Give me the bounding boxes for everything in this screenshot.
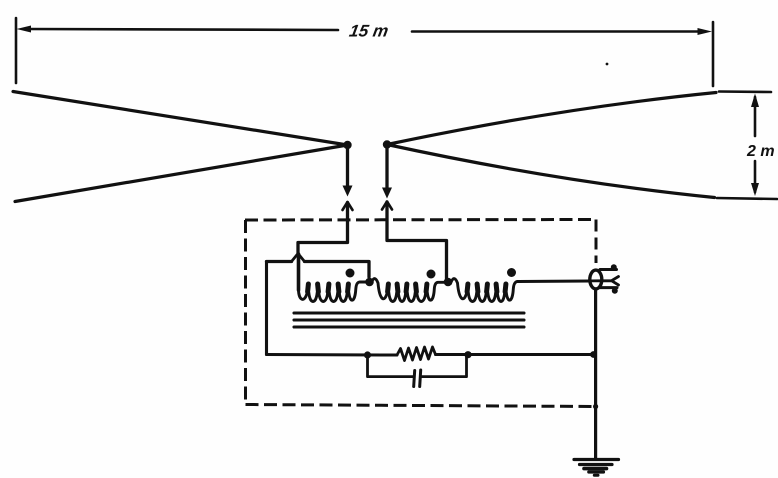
ground symbol line 4 bbox=[589, 470, 604, 473]
wire: coil 1 left lead bbox=[297, 254, 301, 290]
dimension 15m: right arrowhead bbox=[698, 28, 713, 35]
caret joint at coil 1 left lead bbox=[292, 254, 305, 262]
coax connector shell circle bbox=[590, 270, 602, 289]
coax connector bottom prong bbox=[600, 286, 617, 289]
wire: bottom horizontal right of resistor bbox=[436, 353, 593, 356]
left downlead arrowhead bbox=[343, 186, 353, 197]
svg-text:2 m: 2 m bbox=[746, 143, 775, 160]
transformer core line 3 bbox=[294, 325, 524, 328]
node: branch left dot bbox=[364, 351, 371, 358]
dimension 15m: right end tick bbox=[712, 22, 715, 86]
inductor L1 winding bbox=[299, 282, 368, 302]
dimension 2m: vertical line lower bbox=[754, 161, 757, 192]
antenna left fan bottom wire bbox=[15, 145, 348, 202]
dashed enclosure left edge bbox=[244, 220, 247, 404]
dimension 15m: left arrowhead bbox=[17, 26, 32, 33]
transformer core line 2 bbox=[294, 318, 524, 321]
L3 polarity dot bbox=[507, 268, 516, 277]
right downlead arrowhead bbox=[382, 188, 392, 199]
transformer core line 1 bbox=[294, 311, 524, 314]
dashed enclosure top edge bbox=[245, 218, 596, 222]
wire: top horizontal from rail to coil junction drop bbox=[267, 262, 370, 278]
node: bottom wire meets rail bbox=[590, 351, 597, 358]
ink speck bbox=[606, 63, 609, 66]
dimension 2m: bottom arrowhead bbox=[751, 183, 759, 196]
wire: left downlead upper bbox=[346, 145, 349, 188]
dimension 15m: left line segment bbox=[24, 29, 338, 30]
node: junction L2/L3 bbox=[444, 278, 453, 287]
left downlead chevron bbox=[343, 202, 353, 210]
wire: L3 to coax connector bbox=[519, 280, 590, 284]
node: junction L1/L2 bbox=[365, 278, 374, 287]
dashed enclosure right edge upper segment bbox=[595, 220, 598, 264]
wire: right rail to ground bbox=[594, 289, 597, 458]
node: right feed dot bbox=[383, 140, 391, 148]
wire: left downlead lower + jog to coil bbox=[298, 203, 348, 254]
ground symbol line 2 bbox=[580, 463, 613, 466]
L1 polarity dot bbox=[346, 269, 355, 278]
antenna left fan top wire bbox=[13, 92, 348, 146]
wire: right downlead lower + jog to coil junction bbox=[387, 202, 447, 280]
dimension 2m: top arrowhead bbox=[751, 94, 759, 108]
L2 polarity dot bbox=[427, 270, 436, 279]
node: left feed dot bbox=[343, 141, 351, 149]
resistor R zigzag bbox=[397, 347, 436, 361]
inductor L3 winding bbox=[451, 279, 521, 302]
dimension 2m: vertical line upper bbox=[754, 97, 757, 136]
dimension 2m: bottom tick bbox=[717, 198, 777, 199]
wire: capacitor branch bbox=[368, 355, 467, 377]
wire: right downlead upper bbox=[385, 145, 388, 191]
dimension 15m: left end tick bbox=[15, 18, 18, 83]
antenna right fan top wire bbox=[387, 93, 716, 145]
coax connector middle prong with chevron bbox=[589, 277, 619, 286]
node: dashed edge meets rail bbox=[593, 404, 598, 409]
ground symbol line 1 bbox=[574, 458, 619, 461]
wire: bottom horizontal with resistor bbox=[267, 353, 398, 357]
antenna right fan bottom wire bbox=[387, 145, 715, 198]
ground symbol line 3 bbox=[584, 467, 607, 471]
capacitor C right plate bbox=[420, 370, 421, 387]
node: branch right dot bbox=[464, 351, 471, 358]
dimension 2m: top tick bbox=[719, 90, 771, 93]
right downlead chevron bbox=[382, 202, 392, 210]
capacitor C left plate bbox=[414, 371, 415, 387]
dashed enclosure bottom edge bbox=[246, 405, 595, 407]
wire: left shunt rail (vertical) bbox=[265, 262, 268, 355]
dimension 15m: right line segment bbox=[412, 30, 704, 33]
inductor L2 winding bbox=[371, 279, 445, 302]
coax connector top prong bbox=[600, 268, 617, 271]
svg-text:15 m: 15 m bbox=[348, 21, 390, 41]
ground symbol tip bbox=[594, 474, 598, 477]
